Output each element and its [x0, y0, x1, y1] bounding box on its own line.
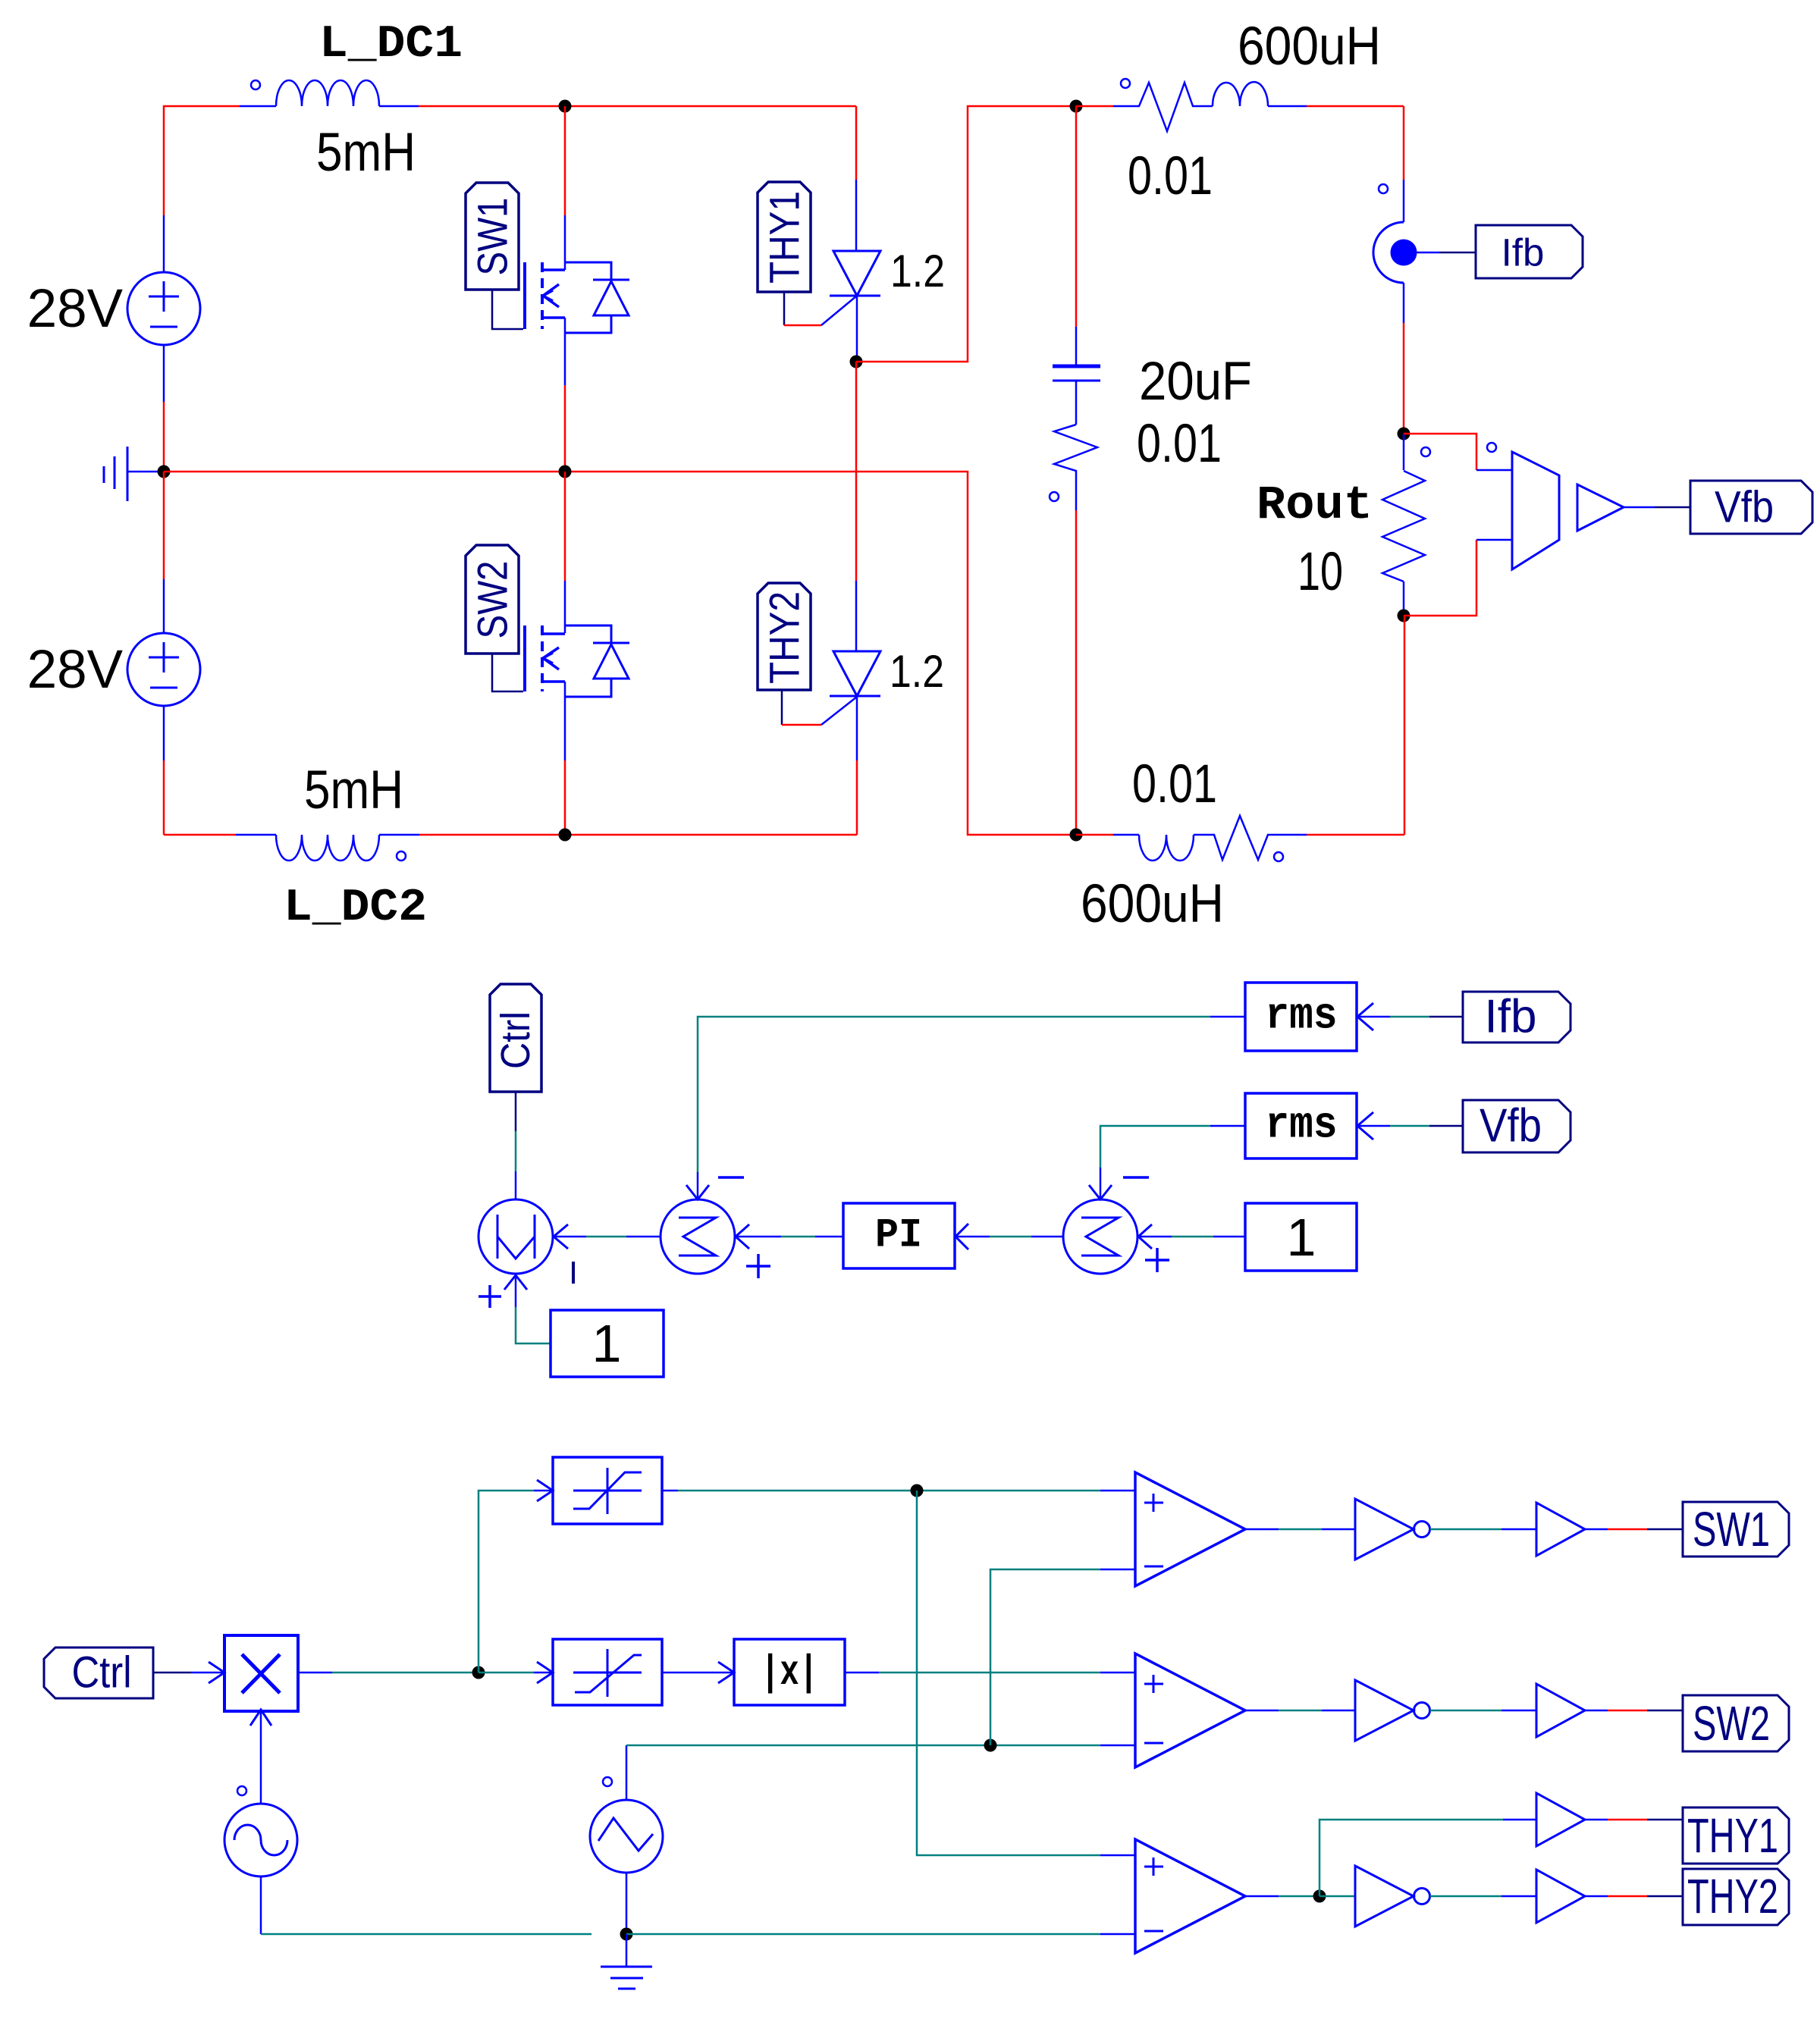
transistor SW1 (MOSFET)	[525, 262, 565, 329]
net tag Ctrl (bottom input)	[44, 1647, 153, 1698]
buffer gate 3	[1536, 1793, 1585, 1846]
node junction dot bottom bus	[620, 1928, 633, 1941]
resistor Rout 10	[1382, 434, 1425, 616]
wire PI to sum1	[736, 1236, 843, 1238]
capacitor 20uF	[1053, 366, 1100, 381]
arrow into sum2 top	[1089, 1185, 1112, 1199]
comparator 2	[1135, 1654, 1245, 1767]
wire voltage sensor minus input	[1404, 540, 1512, 616]
diode SW1 body diode	[565, 262, 629, 333]
wire Ctrl tag to multiplier	[515, 1092, 517, 1199]
svg-text:0.01: 0.01	[1137, 414, 1222, 474]
svg-text:Vfb: Vfb	[1715, 483, 1774, 532]
svg-text:|x|: |x|	[761, 1648, 818, 1697]
arrow into X multiplier left	[209, 1662, 224, 1683]
svg-text:Ifb: Ifb	[1501, 231, 1545, 274]
marker dot voltage sensor	[1487, 443, 1496, 452]
wire const1 to sum2	[1138, 1236, 1245, 1238]
wire not1 to buffer1	[1430, 1528, 1536, 1531]
wire buffer2 to SW2 tag	[1585, 1710, 1683, 1712]
wire junction to limiter2	[479, 1672, 534, 1674]
marker dot L_DC2	[397, 851, 406, 861]
svg-text:Rout: Rout	[1257, 478, 1373, 532]
wire buffer3 to THY1 tag	[1585, 1819, 1683, 1821]
wire THY1 anode lead	[855, 106, 858, 251]
wire const1b to multiplier	[516, 1274, 551, 1343]
label plus (multiplier lower input)	[479, 1285, 501, 1308]
arrow into limiter1	[537, 1480, 553, 1501]
wire SW1 gate link	[492, 290, 523, 329]
wire triangle net riser to comparator1 minus	[990, 1569, 1135, 1745]
wire junction to not3	[1319, 1895, 1355, 1898]
wire up to limiter1	[479, 1491, 534, 1673]
wire mid rail (ground net)	[164, 472, 1076, 835]
constant block 1 (lower)	[551, 1310, 664, 1377]
arrow into rms2 right	[1357, 1112, 1373, 1140]
wire SW1 drain lead	[564, 106, 566, 270]
capacitor branch wire top	[1075, 106, 1078, 365]
node junction dot Rout top	[1398, 428, 1410, 440]
svg-text:600uH: 600uH	[1238, 17, 1381, 77]
arrow into multiplier bottom	[504, 1275, 527, 1290]
summer block sum1 (circle sigma)	[661, 1199, 735, 1274]
resistor 0.01 (cap ESR)	[1054, 381, 1097, 478]
current sensor ISEN	[1373, 222, 1417, 283]
label minus (sum1 top input)	[718, 1176, 744, 1179]
arrow into sum1 right	[736, 1224, 749, 1249]
net tag Ifb (mid input)	[1463, 991, 1571, 1043]
buffer (voltage probe gain)	[1577, 484, 1624, 531]
svg-text:28V: 28V	[27, 640, 124, 700]
svg-text:THY1: THY1	[761, 191, 808, 284]
wire not2 to buffer2	[1430, 1710, 1536, 1712]
constant block 1 (reference)	[1245, 1203, 1357, 1271]
net tag Vfb (mid input)	[1463, 1100, 1571, 1153]
wire comparator3 output	[1245, 1895, 1319, 1898]
buffer gate 4	[1536, 1870, 1585, 1923]
comparator 1	[1135, 1472, 1245, 1586]
svg-text:1: 1	[592, 1314, 622, 1373]
svg-text:SW1: SW1	[469, 198, 516, 276]
wire limiter1 output to comparator1 plus	[662, 1490, 1135, 1492]
multiplier block X	[224, 1635, 298, 1711]
wire X multiplier output	[299, 1672, 479, 1674]
wire limiter2 to abs	[662, 1672, 734, 1674]
arrow into X multiplier bottom	[250, 1710, 271, 1726]
net tag Ifb (power out)	[1476, 225, 1583, 278]
wire current sensor to Rout top node	[1403, 283, 1405, 434]
marker dot current sensor	[1379, 184, 1388, 193]
thyristor THY1	[830, 251, 880, 296]
wire SW1 source lead	[564, 318, 566, 472]
svg-text:10: 10	[1298, 542, 1343, 602]
voltage sensor VSEN	[1512, 452, 1559, 569]
marker dot L_DC1	[251, 80, 260, 89]
absolute value block |x|	[734, 1639, 845, 1705]
wire THY midpoint to top-right node	[856, 106, 1076, 362]
svg-text:L_DC2: L_DC2	[284, 883, 427, 934]
wire THY1 cathode lead	[856, 296, 858, 362]
marker dot sine2	[603, 1777, 612, 1786]
wire SW2 source lead	[564, 682, 566, 835]
gating tag SW2	[466, 545, 519, 654]
wire buffer4 to THY2 tag	[1585, 1895, 1683, 1898]
wire voltage sensor plus input	[1404, 434, 1512, 470]
wire comparator3 to buffer3 (THY1)	[1319, 1820, 1536, 1896]
wire THY2 cathode lead	[856, 696, 858, 835]
svg-text:THY2: THY2	[1687, 1869, 1778, 1923]
arrow into abs block	[718, 1662, 734, 1683]
buffer gate 1	[1536, 1503, 1585, 1556]
wire cap branch bottom	[1075, 478, 1078, 835]
wire sum2 to PI	[955, 1236, 1063, 1238]
inductor-resistor branch bottom 600uH 0.01	[1076, 816, 1404, 861]
svg-text:1: 1	[1287, 1208, 1316, 1267]
net tag Ctrl (mid output)	[490, 984, 541, 1092]
wire SW2 gate link	[492, 654, 523, 691]
svg-text:600uH: 600uH	[1081, 874, 1224, 934]
wire top rail left (V1+ to L_DC1 to SW1 drain node)	[164, 106, 856, 271]
wire THY1 gate link	[784, 292, 857, 325]
svg-text:Ctrl: Ctrl	[72, 1648, 132, 1698]
wire Ifb tag to rms1	[1357, 1016, 1463, 1018]
summer block sum2 (circle sigma)	[1063, 1199, 1137, 1274]
node junction dot filter bottom	[1070, 829, 1083, 842]
svg-text:20uF: 20uF	[1139, 352, 1252, 412]
wire THY2 gate link	[782, 690, 857, 725]
svg-text:SW2: SW2	[1693, 1696, 1770, 1751]
thyristor THY2	[830, 651, 880, 696]
marker dot Rout	[1421, 447, 1430, 456]
svg-text:1.2: 1.2	[890, 246, 945, 296]
wire sum1 to multiplier	[554, 1236, 661, 1238]
net tag THY1 (output)	[1683, 1807, 1789, 1864]
net tag Vfb (power out)	[1690, 481, 1812, 534]
svg-text:1.2: 1.2	[890, 646, 944, 697]
svg-text:THY1: THY1	[1687, 1808, 1778, 1863]
gating tag SW1	[466, 183, 519, 290]
not gate 3	[1355, 1866, 1430, 1927]
wire Vfb tag to rms2	[1357, 1125, 1463, 1127]
transistor SW2 (MOSFET)	[525, 625, 565, 691]
pin label I (multiplier)	[572, 1262, 575, 1284]
diode SW2 body diode	[565, 625, 629, 697]
ground symbol (power)	[104, 447, 164, 501]
svg-text:5mH: 5mH	[316, 123, 416, 183]
net tag SW1 (output)	[1683, 1502, 1789, 1557]
wire limiter1 net riser to comparator3 plus	[917, 1491, 1135, 1855]
multiplier block (circle W)	[479, 1199, 553, 1274]
marker dot cap branch	[1050, 492, 1059, 501]
wire comparator2 to not2	[1245, 1710, 1355, 1712]
PI controller block	[843, 1203, 955, 1268]
label minus (sum2 top input)	[1123, 1176, 1149, 1179]
svg-text:L_DC1: L_DC1	[319, 19, 463, 71]
node junction dot Ctrl-mod signal	[472, 1666, 485, 1679]
svg-text:THY2: THY2	[761, 591, 808, 684]
node junction dot SW1 source / SW2 drain	[559, 466, 572, 478]
wire V1 minus to ground node	[163, 345, 165, 472]
wire bottom RL up to Rout bottom	[1404, 616, 1406, 835]
label plus (sum1 right input)	[746, 1254, 770, 1278]
node GND junction dot	[158, 466, 171, 478]
svg-text:rms: rms	[1266, 992, 1338, 1042]
wire to current sensor	[1403, 106, 1405, 222]
node junction dot SW2 source / bottom rail	[559, 829, 572, 842]
arrow into PI right	[955, 1224, 968, 1249]
ground symbol (control)	[601, 1934, 652, 1989]
buffer gate 2	[1536, 1684, 1585, 1737]
node junction dot comparator3 output	[1313, 1890, 1326, 1903]
marker dot RL bottom	[1274, 852, 1283, 861]
arrow into sum1 top	[686, 1185, 709, 1199]
voltage source V2 28V	[127, 472, 200, 835]
net tag SW2 (output)	[1683, 1695, 1789, 1751]
wire current sensor output to Ifb tag	[1417, 252, 1476, 254]
limiter block 1 (hard limiter)	[553, 1457, 662, 1524]
node junction dot triangle net	[984, 1739, 997, 1752]
node B junction dot (THY midpoint)	[850, 356, 863, 368]
label plus (sum2 right input)	[1145, 1248, 1169, 1272]
svg-text:Vfb: Vfb	[1480, 1100, 1542, 1152]
svg-text:0.01: 0.01	[1132, 754, 1217, 814]
resistor-inductor branch top 600uH 0.01	[1076, 82, 1404, 131]
wire sine1 to X multiplier	[260, 1709, 262, 1804]
not gate 1	[1355, 1499, 1430, 1560]
node junction dot Rout bottom	[1398, 610, 1410, 622]
net tag THY2 (output)	[1683, 1869, 1789, 1925]
rms block 1	[1245, 983, 1357, 1051]
limiter block 2 (saturation)	[553, 1639, 662, 1705]
wire SW2 drain lead	[564, 472, 566, 633]
rms block 2	[1245, 1093, 1357, 1158]
arrow into multiplier right	[554, 1224, 568, 1249]
marker dot RL top	[1121, 79, 1130, 88]
wire bottom bus to comparator3 minus	[626, 1933, 1135, 1936]
sine source (carrier)	[224, 1804, 297, 1876]
svg-text:PI: PI	[875, 1213, 922, 1259]
node junction dot limiter1 output	[911, 1484, 924, 1497]
wire THY2 anode lead already via column; gating tag THY2	[758, 583, 811, 690]
inductor L_DC2 5mH	[236, 835, 419, 861]
node A junction dot (SW1 drain / top rail)	[559, 100, 572, 113]
wire comparator1 to not1	[1245, 1528, 1355, 1531]
svg-text:SW1: SW1	[1693, 1502, 1770, 1557]
wire triangle source bottom to bus	[626, 1873, 628, 1934]
svg-text:0.01: 0.01	[1128, 146, 1213, 206]
svg-text:28V: 28V	[27, 279, 124, 339]
arrow into limiter2	[537, 1662, 553, 1683]
wire abs output to comparator2 plus	[845, 1672, 1135, 1674]
wire triangle source top to comparator2 minus	[626, 1745, 1135, 1800]
triangle wave source	[590, 1800, 663, 1873]
svg-text:Ctrl: Ctrl	[493, 1011, 538, 1069]
arrow into sum2 right	[1138, 1224, 1152, 1249]
voltage source V1 28V	[127, 272, 200, 345]
wire buffer1 to SW1 tag	[1585, 1528, 1683, 1531]
comparator 3	[1135, 1839, 1245, 1953]
wire not3 to buffer4	[1430, 1895, 1536, 1898]
wire buffer to Vfb tag	[1624, 506, 1690, 509]
arrow into rms1 right	[1357, 1003, 1373, 1030]
svg-text:Ifb: Ifb	[1485, 991, 1537, 1043]
wire sine1 to bottom bus	[261, 1876, 591, 1934]
wire rms1 to sum1 (long feedback)	[698, 1017, 1245, 1199]
wire bottom rail	[164, 834, 857, 836]
node C junction dot (filter input top)	[1070, 100, 1083, 113]
marker dot sine1	[237, 1786, 246, 1795]
wire Ctrl to X multiplier	[153, 1672, 224, 1674]
svg-text:rms: rms	[1266, 1102, 1338, 1151]
not gate 2	[1355, 1680, 1430, 1741]
wire rms2 to sum2	[1100, 1126, 1245, 1199]
gating tag THY1	[758, 182, 811, 292]
svg-text:5mH: 5mH	[304, 760, 403, 820]
wire THY1 cathode to THY2 anode	[855, 362, 858, 651]
inductor L_DC1 5mH	[240, 80, 419, 106]
svg-text:SW2: SW2	[469, 561, 516, 639]
